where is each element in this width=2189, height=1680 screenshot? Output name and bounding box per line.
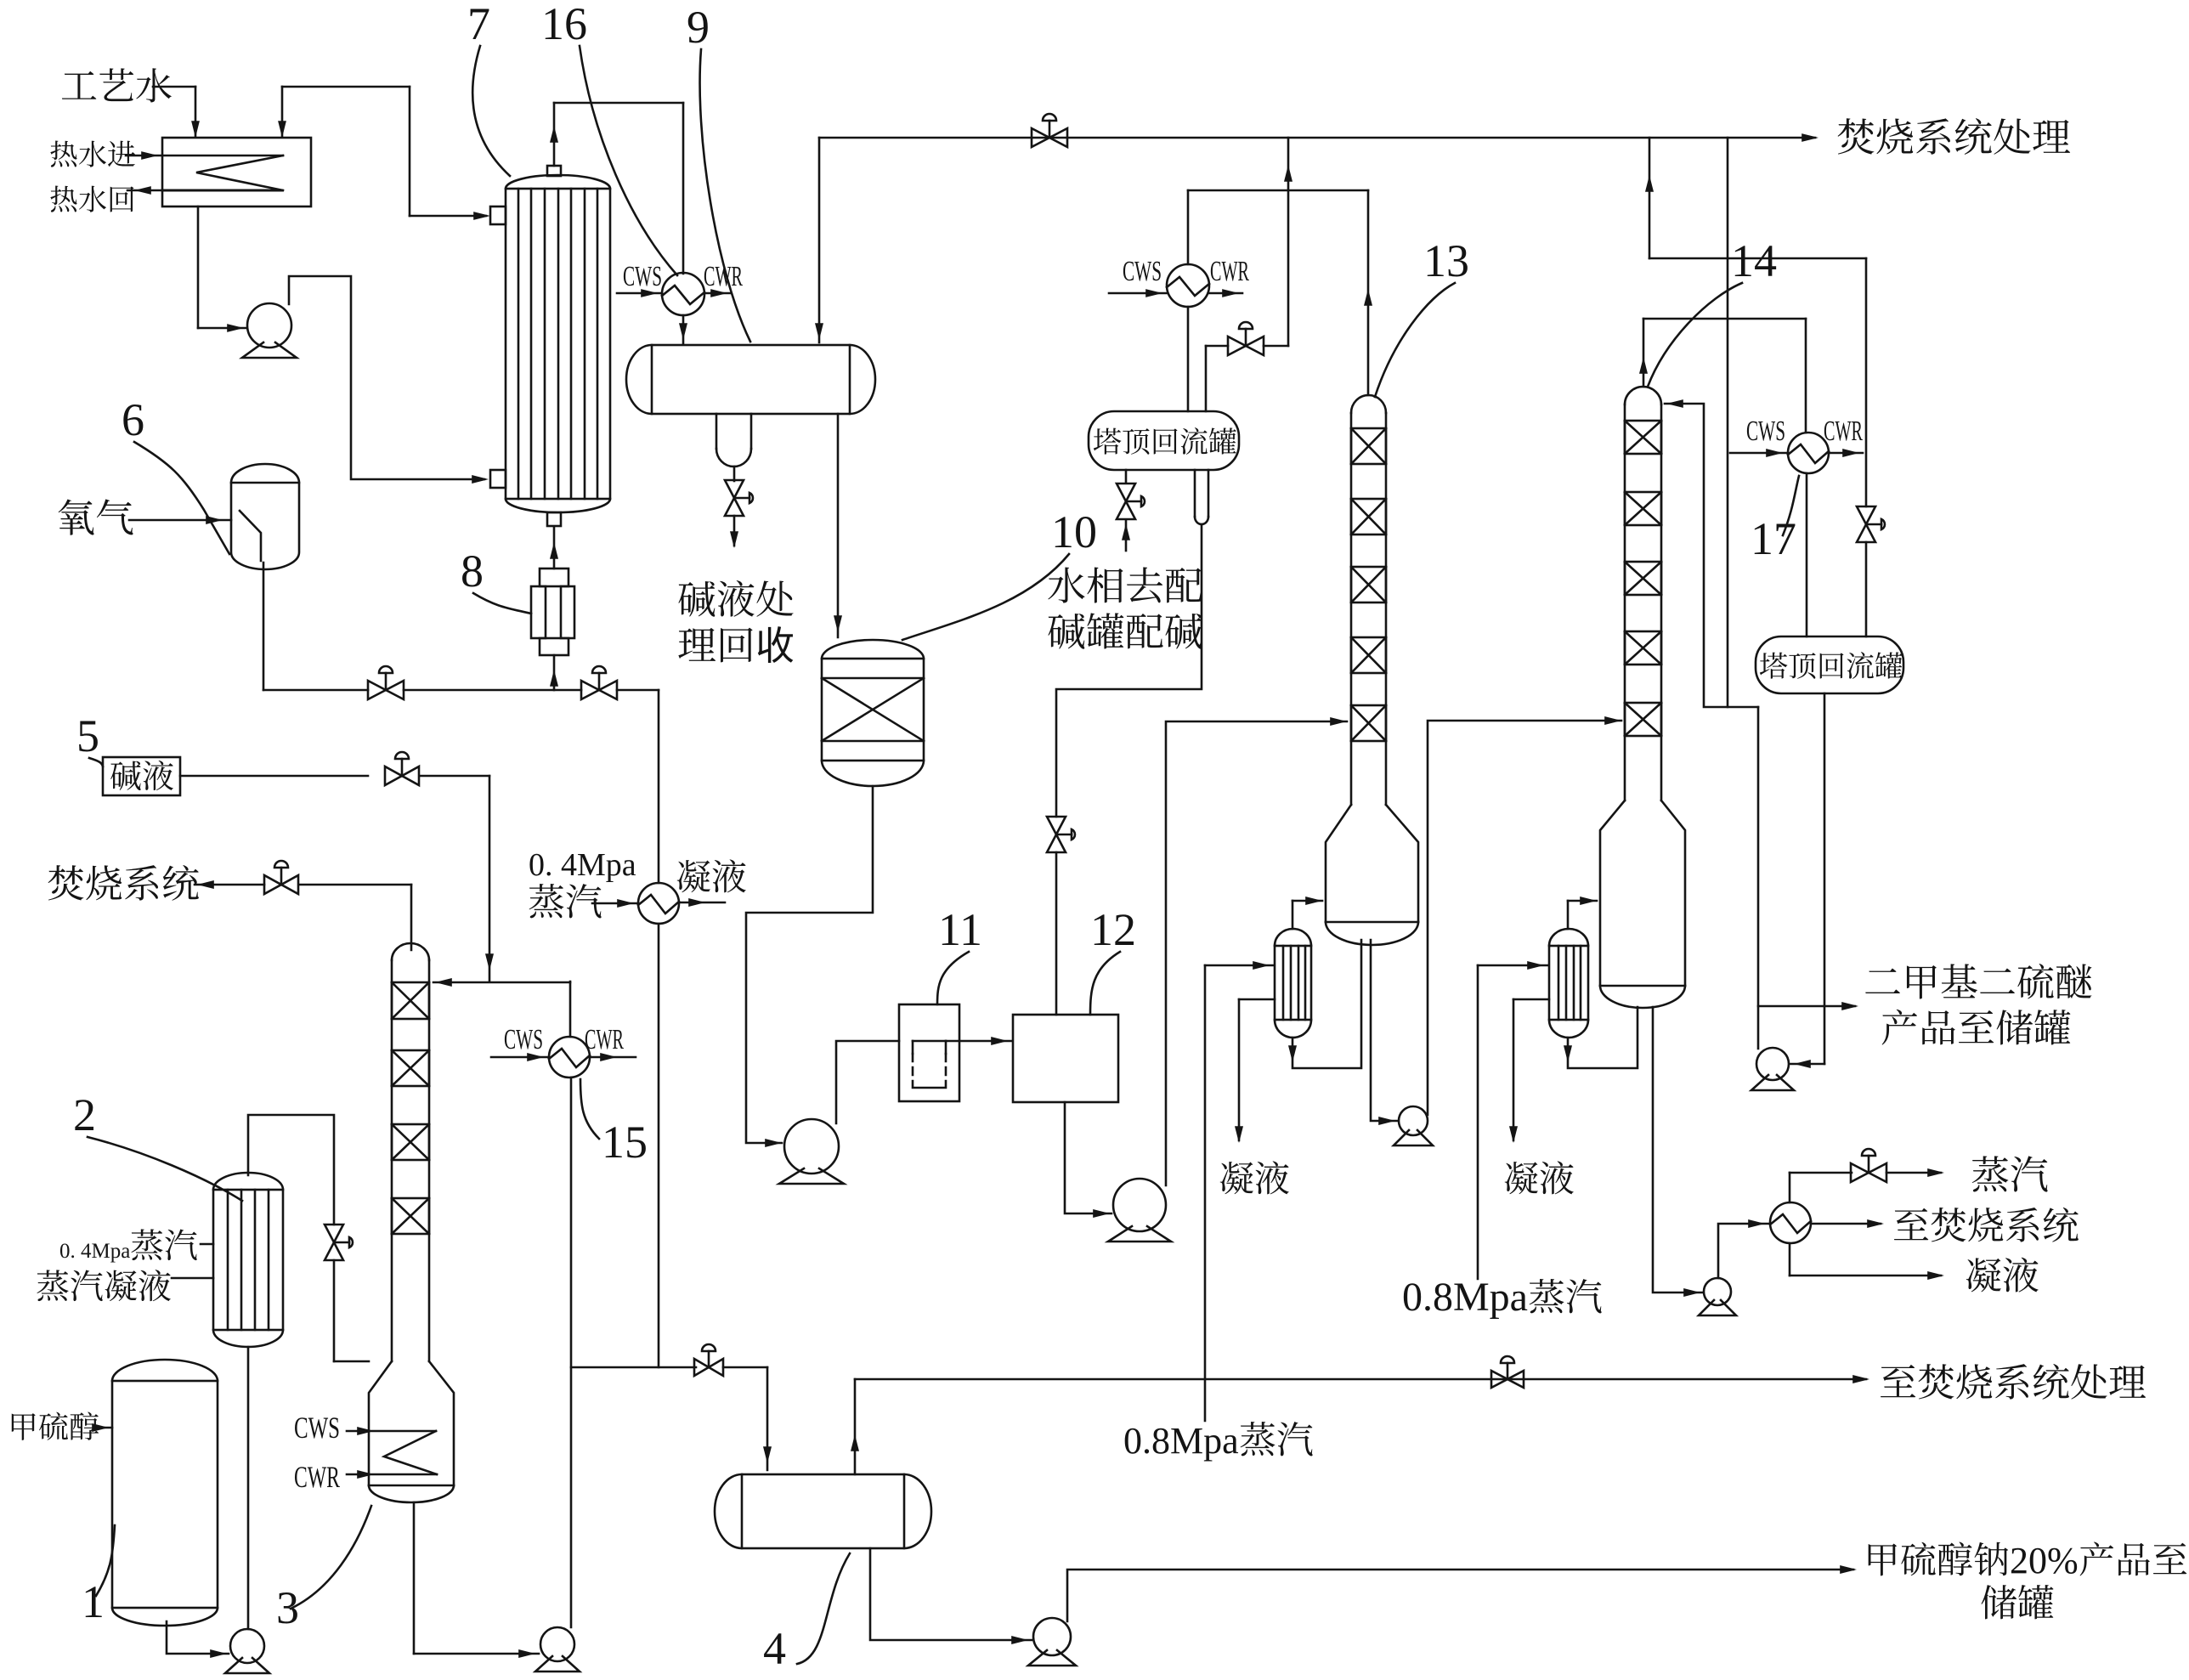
wire header to steam heater drop	[617, 689, 659, 692]
wire DMDS product line	[1758, 1005, 1855, 1008]
pump Pv2 (feed pump)	[230, 1629, 264, 1663]
svg-text:8: 8	[461, 546, 484, 597]
vessel 1 (methyl mercaptan tank)	[112, 1381, 218, 1608]
valve A on oxygen header	[368, 681, 404, 699]
text 碱液处理回收 (caustic treatment/recovery)	[678, 581, 715, 617]
svg-text:0. 4Mpa: 0. 4Mpa	[59, 1240, 130, 1263]
valve on column 3 overhead	[264, 875, 298, 894]
wire R1 condensate out	[1239, 998, 1275, 1001]
wire CWS into condenser 17	[1730, 452, 1788, 455]
pump Pd4 (product pump)	[1033, 1618, 1071, 1655]
pump Pc3 (column 3 bottoms)	[540, 1627, 574, 1661]
svg-text:13: 13	[1423, 235, 1469, 286]
reboiler R2 (column 14)	[1549, 946, 1588, 1020]
wire condenser 16 to drum 9	[682, 315, 685, 343]
text 焚烧系统 (incineration system)	[48, 865, 84, 900]
svg-text:0. 4Mpa: 0. 4Mpa	[529, 847, 636, 883]
text 塔顶回流罐 in drum 1	[1094, 428, 1122, 455]
reflux drum 1 (塔顶回流罐)	[1089, 411, 1239, 470]
text 凝液 at steam heater	[677, 860, 710, 892]
text 凝液 (R1 condensate)	[1220, 1162, 1253, 1194]
text 至焚烧系统 (to incineration)	[1894, 1208, 1928, 1241]
wire steam into heater	[592, 902, 638, 905]
wire drum 2 vent riser	[1649, 138, 1651, 258]
svg-text:CWS: CWS	[504, 1024, 543, 1055]
wire pump P10 discharge to vessel 11	[836, 1041, 899, 1123]
text label 氧气 (oxygen)	[59, 499, 94, 535]
svg-text:12: 12	[1090, 904, 1136, 955]
wire pump P13 discharge to column 14 feed	[1428, 721, 1621, 1115]
wire caustic line	[180, 775, 368, 778]
wire drum 4 bottoms to pump Pd4	[870, 1548, 1032, 1640]
steam heater (0.4Mpa)	[638, 883, 679, 924]
wire drain to caustic treatment	[733, 516, 736, 546]
wire 0.8Mpa steam riser to R1	[1204, 965, 1207, 1421]
vessel 12 (mixing tank)	[1013, 1015, 1118, 1102]
wire unit 8 bottom junction	[553, 655, 556, 690]
wire hot water return arrow	[127, 189, 162, 192]
wire condenser 17 to reflux drum 2	[1806, 473, 1808, 636]
pump P12	[1113, 1179, 1166, 1231]
wire drum 2 bottom to product pump	[1824, 693, 1826, 1064]
wire dip tube to vessel 12 line	[1056, 524, 1202, 817]
U-tube inside vessel 11	[912, 1041, 914, 1054]
wire valve down to drum 2	[1865, 542, 1868, 636]
wire R2 bottom loop to column 14	[1568, 1007, 1638, 1068]
valve on bottoms header	[694, 1359, 723, 1376]
text 凝液 (R2 condensate)	[1505, 1162, 1538, 1194]
box 碱液 (caustic feed)	[103, 757, 180, 795]
wire column 13 bottoms to pump P13	[1371, 940, 1397, 1121]
svg-text:CWR: CWR	[1210, 256, 1249, 287]
wire column 3 bottoms to pump Pc3	[413, 1502, 416, 1654]
column 7 (tubular reactor shell)	[506, 189, 610, 499]
svg-text:16: 16	[541, 0, 587, 49]
svg-text:7: 7	[467, 0, 490, 49]
svg-text:20%: 20%	[2010, 1540, 2079, 1581]
wire column 14 bottoms to pump P14	[1653, 1007, 1702, 1293]
unit 8 (twin cartridge filter)	[540, 568, 568, 586]
wire column 13 overhead to condenser	[1188, 189, 1368, 192]
coil zigzag inside HX1	[162, 155, 283, 157]
wire CWS into condenser 16	[617, 292, 662, 295]
svg-text:9: 9	[687, 2, 710, 53]
wire CWR out of condenser 17	[1829, 452, 1863, 455]
wire bottoms header	[571, 1366, 696, 1369]
wire drum 9 bottom to vessel 10	[837, 414, 840, 637]
wire methyl mercaptan feed	[95, 1427, 112, 1429]
wire unit 8 top to column 7 bottom nozzle	[553, 528, 556, 568]
wire vessel 2 bottom to pump Pv2	[247, 1347, 250, 1629]
wire vessel 11 to vessel 12	[913, 1040, 946, 1043]
reflux drum 2 (塔顶回流罐)	[1756, 636, 1903, 693]
heat exchanger HX1 (rectangular with coil)	[162, 138, 311, 206]
condenser for column 13 (CWS/CWR)	[1167, 264, 1209, 307]
svg-text:15: 15	[602, 1117, 648, 1168]
wire reflux drum 1 vent to valve	[1205, 346, 1208, 411]
wire CWR out of condenser 16	[704, 292, 731, 295]
main vent header to incineration	[819, 137, 1815, 139]
drum 9 (horizontal separator)	[652, 345, 850, 414]
wire cooler condensate out	[1789, 1243, 1791, 1276]
wire header between valves	[404, 689, 581, 692]
wire pump P1 discharge to column 7 lower nozzle	[289, 276, 484, 479]
text 二甲基二硫醚产品至储罐	[1865, 968, 1900, 993]
wire valve to vessel 12 top	[1055, 852, 1058, 1015]
wire process water to HX1 inlet	[153, 86, 195, 88]
valve on drum 2 vent line	[1857, 506, 1875, 542]
wire CWS into condenser 15	[491, 1056, 549, 1059]
wire column 14 overhead to condenser 17	[1643, 319, 1645, 387]
wire CWR into column 3 coil	[347, 1474, 369, 1476]
wire cooler to steam valve	[1789, 1173, 1791, 1202]
valve on water phase line	[1117, 484, 1135, 519]
wire vessel 2 top to valve to column 3	[248, 1115, 334, 1225]
valve on main vent header	[1032, 128, 1067, 147]
wire HX1 second top line	[282, 86, 410, 88]
text 甲硫醇钠20%产品至储罐	[1869, 1544, 1897, 1576]
pump P10	[784, 1119, 839, 1174]
vessel 6 (oxygen buffer tank)	[231, 464, 299, 569]
column 13 (packed distillation column)	[1350, 413, 1353, 805]
wire cooler outlet to incineration	[1811, 1223, 1881, 1225]
column 7 upper left nozzle	[490, 206, 506, 224]
svg-text:CWS: CWS	[1123, 256, 1162, 287]
column 3 (packed column)	[391, 960, 393, 1361]
wire header to drum 4	[723, 1366, 767, 1369]
wire CWS into column 3 coil	[347, 1430, 369, 1433]
wire overhead valve to column 3	[299, 884, 411, 886]
wire drum 4 vapor to incineration header	[854, 1379, 857, 1474]
pump P1 (process water pump)	[247, 303, 291, 348]
svg-text:14: 14	[1731, 235, 1777, 286]
svg-text:CWS: CWS	[623, 261, 662, 292]
wire oxygen feed arrow	[129, 519, 231, 522]
wire valve to vent riser	[1264, 345, 1288, 348]
text 焚烧系统处理 (to incineration system)	[1838, 118, 1875, 154]
wire pump P12 discharge to column 13 feed	[1166, 721, 1347, 1185]
drum 1 dip tube	[1194, 470, 1196, 517]
pump P-DMDS (product pump)	[1756, 1048, 1789, 1080]
text label 热水回 (hot water return)	[50, 185, 76, 212]
text 蒸汽 (steam)	[1972, 1156, 2009, 1191]
wire steam out	[1886, 1172, 1941, 1174]
condenser 17 (CWS/CWR)	[1788, 433, 1829, 473]
wire vent riser from main header into drum 9	[818, 138, 821, 342]
wire condenser 15 down to bottoms header and pump	[570, 1078, 573, 1627]
svg-text:CWS: CWS	[294, 1411, 340, 1445]
text 水相去配碱罐配碱	[1048, 568, 1084, 603]
wire column 14 vent to main header	[1727, 138, 1729, 707]
bottoms cooler heat exchanger	[1770, 1202, 1811, 1243]
wire HX1 bottom to pump P1 suction	[197, 206, 200, 328]
condenser 16 (CWS/CWR cooler)	[662, 273, 704, 315]
svg-text:CWR: CWR	[1824, 416, 1863, 447]
wire reflux return to column 14	[1665, 404, 1758, 707]
svg-text:3: 3	[276, 1582, 299, 1633]
text 甲硫醇 (methyl mercaptan)	[12, 1413, 36, 1440]
wire product pump discharge reflux riser	[1757, 707, 1760, 1049]
pump P13 (column 13 bottoms)	[1399, 1106, 1428, 1135]
wire oxygen header	[263, 689, 368, 692]
svg-text:CWR: CWR	[294, 1460, 340, 1494]
pump P14 (column 14 bottoms)	[1704, 1278, 1731, 1305]
wire vessel 10 outlet to pump P10	[746, 786, 873, 1143]
vessel 11 (seal pot with U-tube)	[899, 1004, 959, 1101]
svg-text:0.8Mpa: 0.8Mpa	[1402, 1275, 1528, 1320]
text label 热水进 (hot water in)	[50, 140, 76, 167]
wire pump P14 discharge to bottoms cooler	[1718, 1224, 1768, 1278]
text 蒸汽凝液 at vessel 2	[37, 1270, 68, 1301]
wire R2 vapor return to column 14	[1567, 901, 1570, 929]
svg-text:0.8Mpa: 0.8Mpa	[1123, 1420, 1239, 1462]
vessel 10 (packed bed vessel)	[822, 659, 924, 761]
wire caustic header into column 3 top	[433, 981, 570, 984]
svg-text:1: 1	[82, 1576, 105, 1627]
valve on drum 9 boot drain	[725, 480, 744, 516]
column 7 bottom nozzle	[547, 512, 561, 526]
condenser 15 (CWS/CWR)	[549, 1037, 590, 1078]
wire vessel 6 bottom outlet down to valve header	[263, 563, 265, 690]
wire vessel 1 bottom to pump Pv2	[167, 1621, 229, 1654]
wire CWR out of column 13 condenser	[1209, 292, 1242, 295]
valve between vessel 2 and column 3	[325, 1225, 343, 1260]
coil zigzag inside column 3	[369, 1430, 436, 1433]
column 7 top nozzle	[547, 166, 561, 176]
svg-text:2: 2	[73, 1089, 96, 1140]
valve B on oxygen header	[581, 681, 617, 699]
wire 0.8Mpa steam riser to R2	[1477, 965, 1479, 1279]
svg-text:11: 11	[938, 904, 982, 955]
svg-text:4: 4	[763, 1623, 786, 1674]
drum 4 (horizontal product drum)	[742, 1474, 904, 1548]
valve on vessel 12 feed	[1047, 817, 1066, 852]
wire condensate from vessel 2	[172, 1277, 213, 1280]
wire steam into vessel 2	[201, 1243, 213, 1246]
text 碱液 in box	[110, 761, 140, 790]
wire vessel 12 bottom to pump P12	[1065, 1102, 1111, 1213]
wire R1 bottom loop to column 13	[1292, 940, 1361, 1068]
wire drum 1 bottom to water-phase valve	[1125, 470, 1128, 483]
wire column 7 overhead to condenser 16	[553, 103, 556, 166]
wire boot to drain valve	[733, 467, 736, 481]
text 凝液 (cooler condensate)	[1966, 1258, 2001, 1292]
svg-text:5: 5	[76, 710, 99, 761]
drum 9 boot	[716, 414, 718, 449]
wire heater condensate out	[679, 902, 725, 904]
wire to water phase text	[1125, 520, 1128, 551]
wire caustic to column 3	[420, 775, 489, 778]
wire heater vertical to bottoms header	[658, 924, 660, 1367]
svg-text:6: 6	[122, 394, 144, 445]
column 7 lower left nozzle	[490, 470, 506, 488]
incineration header line	[855, 1378, 1866, 1381]
wire column 3 overhead to incineration	[195, 884, 264, 886]
wire caustic junction down to condenser 15	[569, 981, 572, 1037]
svg-text:CWS: CWS	[1746, 416, 1785, 447]
text label 工艺水 (process water)	[62, 71, 96, 99]
svg-text:17: 17	[1751, 513, 1796, 564]
svg-text:10: 10	[1051, 506, 1097, 557]
valve on drum 1 vent	[1228, 337, 1264, 355]
text 至焚烧系统处理	[1881, 1365, 1915, 1397]
valve on steam outlet	[1851, 1163, 1886, 1182]
wire R2 condensate out	[1513, 998, 1549, 1001]
wire valve to column 3 cone	[333, 1260, 336, 1361]
wire hot water in arrow	[126, 155, 162, 157]
column 14 (packed distillation column)	[1624, 404, 1626, 800]
reboiler R1 (column 13)	[1275, 946, 1311, 1020]
wire CWS into column 13 condenser	[1109, 292, 1167, 295]
text 塔顶回流罐 in drum 2	[1760, 653, 1788, 679]
wire condenser down to reflux drum 1	[1187, 190, 1190, 264]
valve on incineration header	[1491, 1371, 1524, 1388]
wire CWR out of condenser 15	[590, 1056, 636, 1059]
wire R1 vapor return to column 13	[1292, 901, 1294, 929]
svg-text:收: 收	[755, 625, 795, 668]
valve on caustic line	[385, 766, 419, 785]
wire product line to storage	[1067, 1570, 1853, 1621]
svg-text:CWR: CWR	[585, 1024, 624, 1055]
vessel 2 (tube vaporizer)	[213, 1190, 283, 1330]
